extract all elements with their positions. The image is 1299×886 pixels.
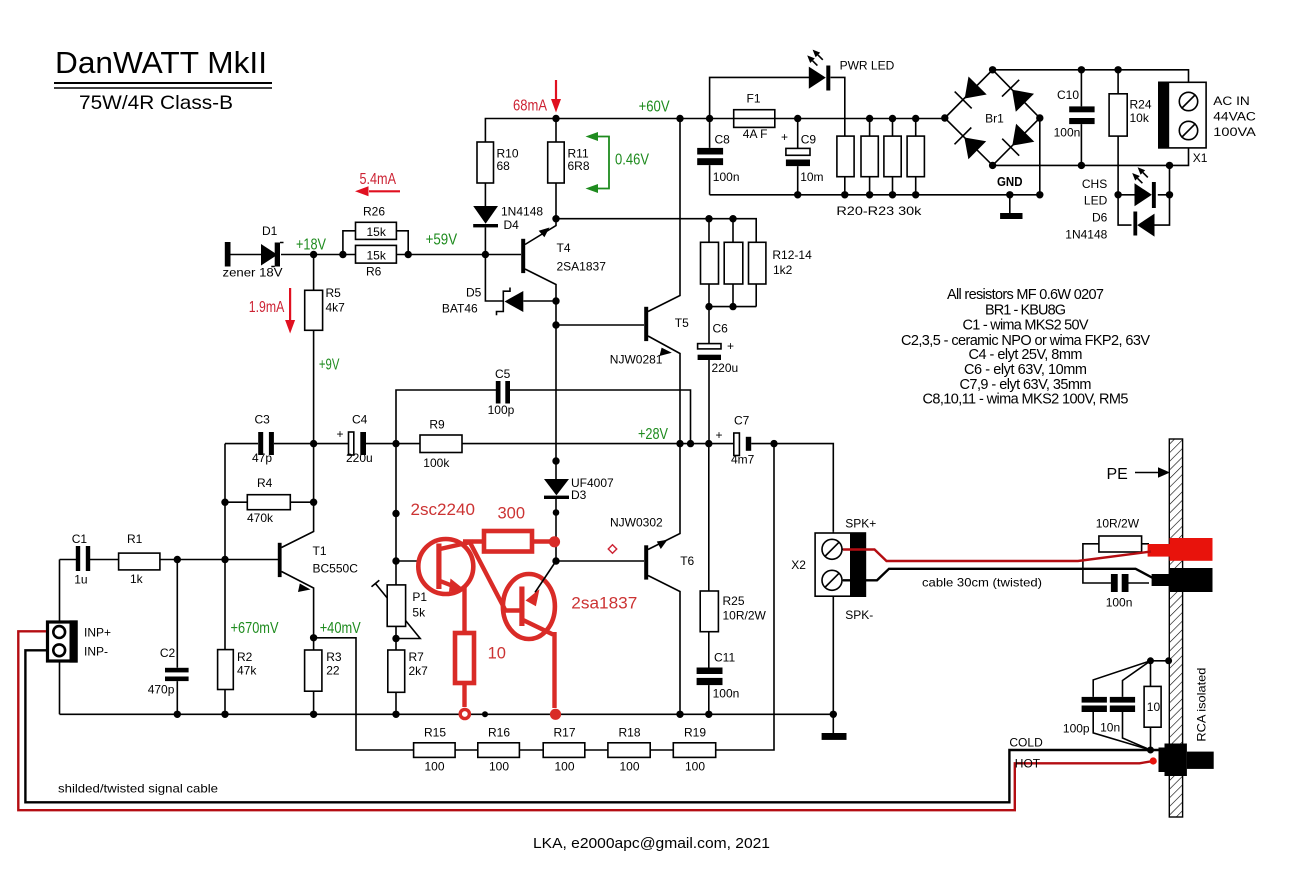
wire C1 left stub — [60, 559, 77, 561]
wire C6 bottom to output rail — [708, 360, 710, 444]
diode D6 — [1065, 211, 1154, 242]
svg-text:T1: T1 — [313, 544, 327, 558]
svg-text:D4: D4 — [504, 218, 520, 232]
svg-text:R3: R3 — [326, 650, 342, 664]
svg-text:15k: 15k — [367, 225, 387, 239]
svg-text:SPK+: SPK+ — [845, 517, 876, 531]
wire INP column — [59, 560, 61, 715]
svg-text:D3: D3 — [571, 488, 587, 502]
red diamond marker — [608, 545, 616, 553]
ground symbol main — [822, 733, 847, 740]
wire R20-R23 bottom stubs — [845, 177, 916, 195]
wire T4 emitter node to R12-14 top bus — [556, 219, 756, 243]
svg-text:47k: 47k — [237, 664, 257, 678]
svg-text:R4: R4 — [257, 476, 273, 490]
svg-text:R25: R25 — [723, 594, 745, 608]
svg-text:47p: 47p — [252, 451, 272, 465]
wire R3 bottom stub — [313, 691, 315, 714]
svg-text:BAT46: BAT46 — [442, 302, 478, 316]
svg-text:100p: 100p — [488, 403, 515, 417]
wire R11 top stub — [555, 119, 557, 143]
svg-text:100n: 100n — [713, 170, 740, 184]
wire +18V segment — [281, 254, 343, 256]
wire X2 bottom to ground — [832, 596, 834, 733]
wire mid rail C3 left — [225, 443, 258, 445]
wire RCA 100p diagonals — [1093, 661, 1150, 750]
svg-text:10R/2W: 10R/2W — [1096, 517, 1140, 531]
RCA capacitor 100p — [1063, 697, 1107, 736]
resistor R3 — [305, 650, 342, 691]
svg-text:C4 - elyt 25V, 8mm: C4 - elyt 25V, 8mm — [969, 347, 1083, 363]
resistor R1 — [119, 532, 160, 586]
svg-text:+: + — [727, 339, 734, 353]
wire RCA 10n diagonals — [1123, 661, 1151, 750]
transistor T4 — [521, 228, 606, 274]
wire GND symbol stub — [1009, 195, 1011, 213]
transistor T5 — [610, 307, 689, 367]
transistor T1 — [278, 543, 358, 592]
svg-text:C11: C11 — [714, 651, 735, 665]
svg-text:100n: 100n — [1106, 596, 1133, 610]
wire 2sc2240 base stub — [396, 560, 419, 562]
svg-text:BR1 - KBU8G: BR1 - KBU8G — [985, 303, 1066, 319]
wire D5 anode to node — [523, 300, 556, 302]
wire C5 right leg — [510, 390, 691, 444]
svg-text:NJW0281: NJW0281 — [610, 353, 663, 367]
svg-text:R18: R18 — [619, 726, 641, 740]
svg-text:RCA isolated: RCA isolated — [1195, 668, 1209, 742]
trimmer P1 — [387, 585, 427, 627]
wire T4 collector to D5 node column — [525, 269, 556, 325]
svg-text:C2: C2 — [160, 646, 176, 660]
wire Br1 bottom row to X1 — [993, 148, 1189, 165]
svg-text:PE: PE — [1107, 466, 1128, 483]
diode D1 zener — [223, 224, 284, 280]
wire D6 loop — [1118, 165, 1169, 225]
svg-text:LED: LED — [1084, 194, 1108, 208]
wire CHS LED row — [1118, 194, 1169, 196]
wire Br1 diamond sides — [945, 70, 1040, 166]
resistor R25 — [700, 591, 766, 632]
capacitor C3 — [252, 413, 274, 466]
svg-text:300: 300 — [498, 505, 526, 523]
wire Br1 top row to X1 — [993, 70, 1189, 82]
ground symbol GND — [997, 174, 1023, 219]
CHS LED — [1082, 167, 1156, 208]
svg-text:T4: T4 — [557, 241, 571, 255]
svg-text:+9V: +9V — [319, 357, 340, 374]
resistor 10R/2W speaker — [1096, 517, 1142, 553]
svg-text:10: 10 — [488, 645, 506, 663]
resistor R11 — [548, 142, 590, 183]
svg-text:R7: R7 — [409, 650, 425, 664]
wire R5 to mid rail — [313, 330, 315, 443]
svg-text:+: + — [716, 428, 723, 442]
svg-text:15k: 15k — [367, 249, 387, 263]
svg-text:2k7: 2k7 — [409, 664, 429, 678]
wire C5 branch — [396, 390, 496, 444]
cable signal black COLD — [25, 650, 1164, 802]
svg-text:CHS: CHS — [1082, 177, 1107, 191]
resistor R7 — [388, 650, 428, 692]
red overlay transistor 2sa1837 — [503, 561, 637, 720]
svg-text:68mA: 68mA — [513, 98, 548, 115]
svg-text:cable 30cm (twisted): cable 30cm (twisted) — [922, 576, 1042, 590]
svg-text:R6: R6 — [366, 265, 382, 279]
capacitor C1 — [72, 532, 91, 587]
svg-text:6R8: 6R8 — [568, 159, 590, 173]
svg-text:+59V: +59V — [426, 232, 458, 249]
wire R24 stubs — [1117, 70, 1119, 195]
svg-text:R17: R17 — [554, 726, 576, 740]
wire C6 top stub — [708, 307, 710, 344]
svg-text:All resistors MF 0.6W 0207: All resistors MF 0.6W 0207 — [947, 287, 1104, 303]
svg-text:C5: C5 — [495, 367, 511, 381]
title DanWATT MkII — [54, 45, 272, 114]
resistor R19 — [673, 726, 715, 774]
svg-text:4m7: 4m7 — [731, 453, 755, 467]
notes block — [901, 287, 1150, 408]
svg-text:100: 100 — [489, 760, 509, 774]
transistor T6 — [610, 516, 695, 580]
svg-text:100: 100 — [620, 760, 640, 774]
svg-text:100VA: 100VA — [1213, 125, 1256, 139]
svg-text:2sc2240: 2sc2240 — [411, 501, 476, 519]
svg-text:10n: 10n — [1100, 721, 1120, 735]
capacitor C4 — [337, 413, 373, 466]
connector X2 SPK — [791, 517, 876, 623]
annotation 68mA with arrow — [513, 80, 561, 115]
wire GND bus — [710, 194, 1040, 196]
wire X2 internal — [832, 531, 834, 596]
resistor R12 — [701, 242, 719, 284]
svg-text:100n: 100n — [1054, 126, 1081, 140]
wire PWR LED loop — [710, 77, 845, 136]
svg-text:4A F: 4A F — [743, 127, 768, 141]
svg-text:4k7: 4k7 — [326, 301, 346, 315]
wire T5 emitter — [648, 336, 680, 444]
svg-text:10R/2W: 10R/2W — [723, 609, 767, 623]
capacitor C8 — [697, 133, 739, 185]
resistor R22 — [884, 136, 901, 177]
wire R5 top stub — [313, 255, 315, 291]
wire R12 top stub — [708, 219, 710, 243]
svg-text:LKA, e2000apc@gmail.com, 2021: LKA, e2000apc@gmail.com, 2021 — [533, 835, 770, 852]
svg-text:5k: 5k — [412, 606, 426, 620]
resistor R9 — [420, 418, 462, 471]
svg-text:D6: D6 — [1092, 211, 1108, 225]
svg-text:R1: R1 — [127, 532, 143, 546]
svg-text:DanWATT MkII: DanWATT MkII — [55, 45, 267, 80]
capacitor 100n speaker — [1106, 574, 1133, 610]
wire C10 stubs — [1080, 70, 1082, 166]
svg-text:Br1: Br1 — [985, 112, 1004, 126]
svg-text:1k: 1k — [130, 572, 144, 586]
svg-text:C4: C4 — [352, 413, 368, 427]
svg-text:220u: 220u — [346, 451, 373, 465]
capacitor C9 — [781, 130, 824, 184]
svg-text:R12-14: R12-14 — [772, 248, 812, 262]
svg-text:10k: 10k — [1130, 111, 1150, 125]
wire ground rail — [60, 713, 834, 715]
wire +60V rail — [485, 119, 944, 143]
svg-text:HOT: HOT — [1015, 757, 1041, 771]
wire R13 top stub — [732, 219, 734, 243]
wire C2 column — [176, 560, 178, 715]
wire R15-R16 link — [455, 749, 478, 751]
resistor R6 — [356, 245, 397, 278]
svg-text:100: 100 — [555, 760, 575, 774]
svg-text:+670mV: +670mV — [231, 620, 280, 637]
wire R25 top column — [708, 444, 710, 591]
resistor R23 — [836, 136, 924, 218]
annotation 1.9mA with arrow — [249, 288, 295, 334]
svg-text:68: 68 — [497, 159, 511, 173]
connector X1 AC IN — [1159, 82, 1256, 165]
svg-text:100p: 100p — [1063, 722, 1090, 736]
svg-text:470p: 470p — [148, 683, 175, 697]
red overlay transistor 2sc2240 — [411, 501, 521, 633]
svg-text:1.9mA: 1.9mA — [249, 299, 285, 316]
resistor R18 — [608, 726, 650, 774]
wire R26 right loop — [396, 231, 408, 255]
svg-text:BC550C: BC550C — [313, 562, 359, 576]
wire T1 collector — [282, 444, 314, 548]
svg-text:+28V: +28V — [638, 426, 669, 443]
svg-text:100: 100 — [425, 760, 445, 774]
wire R18-R19 link — [650, 749, 673, 751]
svg-text:+60V: +60V — [639, 99, 671, 116]
svg-text:100k: 100k — [423, 456, 450, 470]
wire Br1 right vertex to GND bus — [1039, 118, 1041, 195]
bridge rectifier Br1 — [955, 77, 1035, 160]
svg-text:R19: R19 — [684, 726, 706, 740]
wire C9 stubs — [797, 119, 799, 195]
wire C11 bottom stub — [708, 685, 710, 714]
diode D5 schottky — [442, 286, 523, 316]
speaker terminal red — [1148, 538, 1213, 561]
wire feedback left leg — [314, 638, 414, 750]
svg-text:10m: 10m — [800, 170, 823, 184]
wire R25 to C11 — [708, 632, 710, 668]
wire mid rail C3-C4 — [274, 443, 349, 445]
capacitor C7 — [716, 414, 755, 467]
svg-text:44VAC: 44VAC — [1213, 110, 1256, 124]
svg-text:+40mV: +40mV — [320, 620, 362, 637]
svg-text:T5: T5 — [675, 316, 689, 330]
wire T6 collector — [648, 444, 680, 550]
svg-text:D1: D1 — [262, 224, 278, 238]
svg-text:D5: D5 — [466, 286, 482, 300]
connector INP — [48, 620, 112, 662]
svg-text:AC IN: AC IN — [1213, 94, 1250, 108]
svg-text:P1: P1 — [412, 590, 427, 604]
wire X1 internal — [1188, 82, 1190, 148]
wire R26 left loop — [343, 231, 356, 255]
capacitor C11 — [697, 651, 740, 701]
svg-text:1k2: 1k2 — [773, 263, 793, 277]
resistor R5 — [305, 286, 345, 330]
wire T5 base — [556, 324, 644, 326]
red overlay resistor 10 — [455, 633, 506, 719]
svg-text:1N4148: 1N4148 — [1065, 228, 1107, 242]
diode D4 — [473, 205, 543, 233]
PWR LED — [807, 50, 894, 91]
wire feedback column — [716, 444, 774, 750]
resistor R10 — [477, 142, 519, 183]
wire R10 to D4 — [484, 183, 486, 206]
wire left column C3 to R2 — [224, 444, 226, 650]
wire D1 anode — [231, 254, 262, 256]
capacitor C2 — [148, 646, 189, 697]
svg-text:10: 10 — [1147, 700, 1161, 714]
wire R21-R23 top stubs — [870, 119, 916, 137]
svg-text:INP+: INP+ — [84, 626, 111, 640]
annotation 0.46V with bracket — [586, 132, 650, 193]
svg-text:1u: 1u — [74, 573, 87, 587]
wire R11 bottom to node — [555, 183, 557, 219]
wire +59V segment — [408, 254, 521, 256]
svg-text:F1: F1 — [747, 92, 761, 106]
wire D4 to +59V node — [484, 228, 486, 255]
wire P1 to R7 — [395, 626, 397, 650]
RCA connector — [1159, 744, 1214, 777]
capacitor C5 — [488, 367, 515, 417]
svg-text:R2: R2 — [237, 650, 253, 664]
wire R12-14 bottom bus — [709, 284, 756, 307]
svg-text:R26: R26 — [363, 205, 385, 219]
svg-text:75W/4R Class-B: 75W/4R Class-B — [79, 92, 233, 114]
svg-text:470k: 470k — [247, 511, 274, 525]
resistor R24 — [1109, 94, 1152, 136]
svg-text:INP-: INP- — [84, 645, 108, 659]
svg-text:T6: T6 — [680, 554, 694, 568]
svg-text:1N4148: 1N4148 — [501, 205, 543, 219]
wire D3 to T6 base node — [555, 499, 557, 562]
diode D3 — [544, 476, 614, 502]
wire output rail R9 to C7 — [462, 443, 734, 445]
svg-text:+: + — [781, 130, 788, 144]
svg-text:C7,9 - elyt 63V, 35mm: C7,9 - elyt 63V, 35mm — [960, 377, 1092, 393]
wire T6 base — [556, 560, 644, 562]
wire T4 emitter — [525, 219, 556, 245]
wire T1 base row — [90, 559, 278, 561]
wire RCA node to chassis — [1151, 660, 1170, 662]
svg-text:R24: R24 — [1130, 98, 1152, 112]
wire mid rail C4-R9 — [366, 443, 420, 445]
svg-text:2sa1837: 2sa1837 — [571, 595, 637, 613]
wire D5/D3 column — [555, 325, 557, 479]
capacitor C10 — [1054, 88, 1095, 140]
svg-text:5.4mA: 5.4mA — [360, 171, 397, 188]
wire P1 wiper — [372, 580, 421, 638]
svg-text:R16: R16 — [488, 726, 510, 740]
svg-text:2SA1837: 2SA1837 — [557, 260, 607, 274]
cable signal red HOT — [18, 631, 1156, 810]
cable X2 black — [843, 569, 1158, 581]
RCA capacitor 10n — [1100, 697, 1135, 735]
svg-text:C1 - wima MKS2 50V: C1 - wima MKS2 50V — [963, 317, 1089, 333]
svg-text:100: 100 — [685, 760, 705, 774]
svg-text:zener 18V: zener 18V — [223, 266, 283, 280]
svg-text:NJW0302: NJW0302 — [610, 516, 663, 530]
resistor R4 — [247, 476, 290, 525]
svg-text:C6: C6 — [713, 322, 729, 336]
speaker terminal black — [1152, 568, 1213, 592]
svg-text:+18V: +18V — [296, 237, 327, 254]
resistor R14 — [749, 242, 813, 284]
wire speaker zobel loop — [1083, 544, 1149, 583]
wire R4 right stub — [290, 501, 313, 503]
wire R4 left stub — [225, 501, 247, 503]
svg-text:SPK-: SPK- — [845, 608, 873, 622]
svg-text:C1: C1 — [72, 532, 88, 546]
resistor R26 — [356, 205, 397, 240]
resistor R15 — [414, 726, 456, 774]
svg-text:X1: X1 — [1193, 151, 1208, 165]
wire R16-R17 link — [519, 749, 543, 751]
wire output rail C7 to X2 — [751, 444, 833, 532]
resistor R20 — [837, 136, 854, 177]
wire T1 emitter — [282, 572, 314, 651]
resistor R16 — [478, 726, 520, 774]
wire R7 bottom stub — [395, 692, 397, 714]
svg-text:22: 22 — [326, 664, 340, 678]
red overlay resistor 300 — [463, 505, 560, 552]
svg-text:220u: 220u — [712, 361, 739, 375]
RCA resistor 10 — [1144, 686, 1161, 727]
resistor R2 — [218, 650, 258, 690]
cable X2 red — [843, 550, 1151, 562]
wire T6 emitter — [648, 576, 680, 715]
svg-text:C10: C10 — [1057, 88, 1079, 102]
svg-text:0.46V: 0.46V — [615, 152, 650, 169]
wire RCA 10R column — [1150, 661, 1152, 750]
svg-text:R9: R9 — [429, 418, 445, 432]
resistor R13 — [724, 242, 743, 284]
wire D5 cathode leg — [485, 255, 502, 302]
svg-text:GND: GND — [997, 174, 1023, 189]
svg-text:C9: C9 — [801, 133, 817, 147]
svg-text:R15: R15 — [424, 726, 446, 740]
svg-text:C6 - elyt 63V, 10mm: C6 - elyt 63V, 10mm — [964, 362, 1087, 378]
svg-text:C8,10,11 - wima MKS2 100V, RM5: C8,10,11 - wima MKS2 100V, RM5 — [923, 392, 1129, 408]
resistor R21 — [861, 136, 878, 177]
svg-text:X2: X2 — [791, 558, 806, 572]
svg-text:C7: C7 — [734, 414, 750, 428]
wire R2 bottom stub — [224, 690, 226, 715]
wire T5 collector column — [648, 119, 680, 312]
svg-text:C8: C8 — [715, 133, 731, 147]
fuse F1 — [734, 92, 775, 141]
svg-text:PWR LED: PWR LED — [840, 59, 895, 73]
svg-text:+: + — [337, 427, 344, 441]
wire PE lead — [1135, 472, 1160, 474]
PE label — [1107, 466, 1171, 483]
annotation 5.4mA with arrow — [355, 171, 400, 196]
svg-text:R20-R23 30k: R20-R23 30k — [836, 204, 922, 218]
svg-text:C3: C3 — [255, 413, 271, 427]
svg-text:shilded/twisted signal cable: shilded/twisted signal cable — [58, 782, 218, 796]
wire C8 stubs — [709, 119, 711, 195]
resistor R17 — [543, 726, 585, 774]
wire P1 column — [395, 444, 397, 585]
capacitor C6 — [698, 322, 739, 376]
wire R17-R18 link — [585, 749, 608, 751]
chassis bar hatched — [1169, 439, 1182, 817]
svg-text:R5: R5 — [326, 286, 342, 300]
svg-text:COLD: COLD — [1009, 736, 1043, 750]
